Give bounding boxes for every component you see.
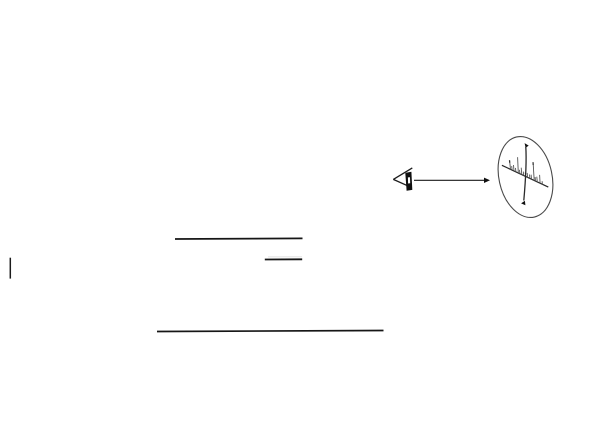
scale baseline inside reticle	[502, 165, 548, 187]
eye pupil (filled)	[405, 172, 412, 191]
long underline rule	[157, 331, 384, 332]
top arrowhead	[525, 143, 529, 148]
underline rule 1	[175, 237, 303, 240]
sight-line arrow from eye to reticle	[414, 178, 490, 183]
reticle field circle (eyepiece view)	[491, 131, 560, 223]
eye lower lid line	[393, 179, 411, 187]
underline rule 2 (short)	[265, 258, 302, 260]
bottom arrowhead	[521, 201, 525, 206]
eye upper lid line	[393, 168, 412, 180]
tick dark caps (tall marks)	[510, 160, 534, 165]
left margin vertical stroke	[9, 258, 11, 279]
scale tick marks	[510, 157, 543, 184]
eye pupil slit (white)	[408, 177, 410, 183]
arrowhead	[484, 178, 490, 183]
pointer line (double-headed, vertical) inside reticle	[521, 143, 529, 205]
arrow shaft	[414, 179, 486, 181]
eye symbol (observer)	[393, 168, 412, 191]
pointer shaft	[524, 147, 526, 201]
faint scan artifact above rule 2	[268, 256, 302, 258]
